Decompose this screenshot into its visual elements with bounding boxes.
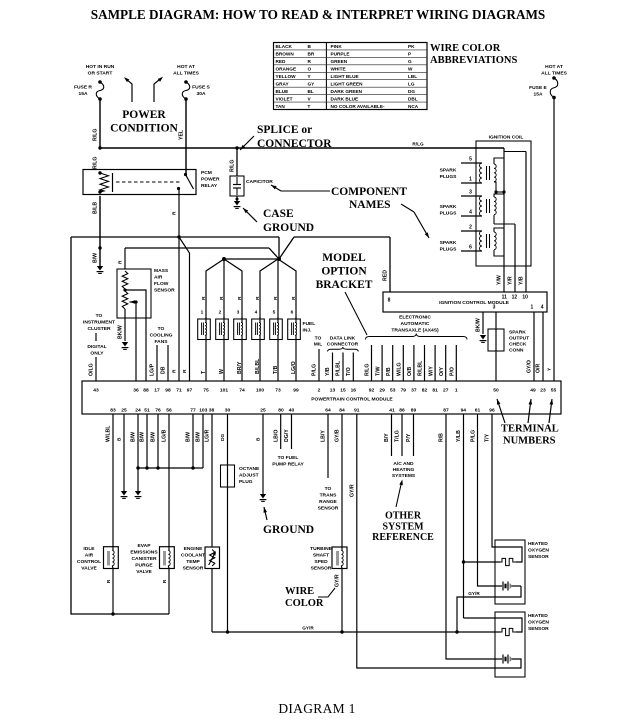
svg-text:1: 1: [455, 388, 458, 394]
svg-text:15A: 15A: [534, 92, 543, 98]
transformer coil 2: [461, 195, 482, 197]
svg-text:DIGITAL: DIGITAL: [87, 344, 106, 350]
wire injector group bus (y=259): [224, 258, 279, 260]
wire P/Y pin 89: [413, 414, 415, 456]
wire LG/P to pin 17: [156, 345, 158, 381]
svg-text:TERMINAL: TERMINAL: [501, 424, 559, 435]
svg-text:SYSTEM: SYSTEM: [382, 521, 424, 532]
svg-text:2: 2: [318, 388, 321, 394]
svg-text:MIL: MIL: [314, 342, 322, 348]
wire DG/Y pin 40 fuel pump relay: [291, 414, 293, 449]
svg-text:IDLE: IDLE: [83, 546, 95, 552]
svg-text:Y/B: Y/B: [325, 367, 331, 376]
wire GY/B pin 84 to turbine sensor: [341, 414, 343, 547]
svg-text:SPARK: SPARK: [509, 330, 526, 336]
svg-text:101: 101: [220, 388, 228, 394]
svg-text:GY/R: GY/R: [302, 626, 314, 631]
wire Y/LB into lower oxygen sensor: [464, 617, 496, 619]
svg-text:81: 81: [432, 388, 438, 394]
svg-text:O/LG: O/LG: [89, 363, 95, 376]
svg-text:98: 98: [165, 388, 171, 394]
svg-text:TO: TO: [158, 326, 165, 332]
svg-text:B/W: B/W: [196, 432, 202, 442]
svg-text:30A: 30A: [197, 91, 206, 97]
wire MAF wiper to pin 36: [135, 302, 137, 381]
wire injector 2 feed: [223, 259, 225, 319]
svg-text:B/W: B/W: [186, 432, 192, 442]
svg-text:61: 61: [475, 408, 481, 414]
svg-text:YEL: YEL: [179, 129, 185, 140]
svg-text:51: 51: [144, 408, 150, 414]
svg-text:O/Y: O/Y: [439, 367, 445, 376]
wire below idle air valve: [112, 568, 114, 614]
svg-text:56: 56: [166, 408, 172, 414]
wire B/W pin 24 to ground: [137, 414, 139, 491]
valve EVAP EMISSIONS CANISTER PURGE box: [160, 547, 175, 569]
svg-text:G: G: [408, 59, 412, 64]
svg-text:R: R: [273, 296, 279, 300]
svg-text:MODEL: MODEL: [322, 252, 366, 264]
wire B/W pin 103: [202, 414, 204, 468]
wire GY/R return bus: [212, 631, 500, 633]
relay switch: [184, 173, 187, 176]
svg-text:41: 41: [389, 408, 395, 414]
svg-text:POWER: POWER: [201, 177, 220, 183]
svg-text:GY: GY: [308, 81, 316, 86]
svg-text:GY/R: GY/R: [349, 484, 355, 497]
wire YEL from fuse S to relay switch: [185, 99, 187, 174]
svg-text:80: 80: [278, 408, 284, 414]
brace data link: [328, 347, 359, 352]
wire B pin 25b to ground: [262, 414, 264, 494]
svg-text:FUSE S: FUSE S: [192, 85, 210, 91]
svg-text:77: 77: [190, 408, 196, 414]
svg-text:PLUG: PLUG: [239, 479, 253, 485]
svg-text:GREEN: GREEN: [331, 59, 348, 64]
svg-text:86: 86: [399, 408, 405, 414]
svg-text:Y/R: Y/R: [508, 276, 514, 285]
svg-text:R/B: R/B: [439, 433, 445, 442]
svg-text:W/LBL: W/LBL: [106, 425, 112, 442]
svg-text:5: 5: [273, 310, 276, 316]
transformer coil 3: [461, 230, 482, 232]
svg-text:3: 3: [469, 190, 472, 196]
svg-text:16: 16: [351, 388, 357, 394]
wire B pin 25 to ground: [123, 414, 125, 491]
wire below EVAP valve: [168, 568, 170, 614]
svg-text:COOLING: COOLING: [150, 333, 173, 339]
svg-text:CONDITION: CONDITION: [110, 123, 178, 135]
wire R bus corner down to junction: [278, 237, 280, 259]
svg-text:97: 97: [187, 388, 193, 394]
svg-text:PURGE: PURGE: [135, 563, 153, 569]
case ground symbol: [236, 196, 238, 201]
wire left feed bus down: [71, 237, 169, 614]
stub line: [95, 333, 97, 341]
svg-text:74: 74: [239, 388, 245, 394]
svg-text:DIAGRAM 1: DIAGRAM 1: [278, 701, 355, 716]
svg-text:BRACKET: BRACKET: [316, 279, 373, 291]
svg-text:4: 4: [541, 305, 544, 311]
svg-text:PLUGS: PLUGS: [440, 211, 458, 217]
svg-text:T/LG: T/LG: [395, 430, 401, 442]
svg-text:W: W: [408, 67, 413, 72]
svg-text:CANISTER: CANISTER: [132, 556, 157, 562]
node MAF divider: [123, 288, 126, 291]
svg-text:HEATING: HEATING: [393, 467, 415, 473]
svg-text:COLOR: COLOR: [285, 598, 324, 609]
svg-text:ELECTRONIC: ELECTRONIC: [399, 315, 431, 321]
svg-text:TAN: TAN: [276, 104, 286, 109]
wire B/W pin 51: [146, 414, 148, 468]
svg-text:HEATED: HEATED: [528, 613, 548, 619]
svg-text:AIR: AIR: [85, 553, 94, 559]
svg-text:ALL TIMES: ALL TIMES: [541, 71, 567, 77]
svg-text:88: 88: [143, 388, 149, 394]
svg-text:25: 25: [260, 408, 266, 414]
svg-text:FANS: FANS: [154, 339, 168, 345]
svg-text:B/W: B/W: [93, 253, 99, 263]
wire BK/W ICM ground: [482, 312, 484, 334]
svg-text:O/R: O/R: [536, 364, 542, 373]
wire T/LG pin 86: [401, 414, 403, 456]
svg-text:AUTOMATIC: AUTOMATIC: [401, 321, 430, 327]
svg-text:POWER: POWER: [122, 109, 166, 121]
primary links coil 3: [494, 228, 504, 232]
svg-text:NUMBERS: NUMBERS: [503, 436, 556, 447]
svg-text:OCTANE: OCTANE: [239, 466, 260, 472]
wire W/LG AX4S: [402, 345, 404, 381]
svg-text:RED: RED: [383, 270, 389, 281]
svg-text:VALVE: VALVE: [81, 566, 97, 572]
svg-text:99: 99: [293, 388, 299, 394]
svg-text:100: 100: [256, 388, 264, 394]
wire R/LG power bus: [100, 147, 504, 149]
node turbine to GY/R bus: [340, 630, 343, 633]
wire O/LG to pin 43: [95, 357, 97, 381]
relay coil: [98, 171, 101, 174]
wires data link pins 13 15 16: [332, 353, 334, 382]
svg-text:LG/R: LG/R: [205, 429, 211, 442]
svg-text:SENSOR: SENSOR: [154, 288, 175, 294]
leader to SPARK PLUGS label: [401, 204, 414, 212]
node upper O2 return to GY/R bus: [455, 630, 458, 633]
module IGNITION CONTROL MODULE box: [383, 292, 547, 312]
svg-text:PUMP RELAY: PUMP RELAY: [272, 462, 304, 468]
svg-text:BK/W: BK/W: [118, 325, 124, 339]
svg-text:29: 29: [379, 388, 385, 394]
svg-text:38: 38: [209, 408, 215, 414]
svg-text:DARK BLUE: DARK BLUE: [331, 96, 359, 101]
primary links coil 2: [494, 194, 504, 197]
arrows to terminal numbers: [497, 399, 505, 423]
svg-text:ABBREVIATIONS: ABBREVIATIONS: [430, 55, 517, 66]
wire LG/R pin 38 to coolant temp sensor: [211, 414, 213, 547]
svg-text:CASE: CASE: [263, 208, 294, 220]
wires coil outputs Y/W Y/R Y/B: [503, 266, 505, 292]
svg-text:R/LG: R/LG: [412, 142, 424, 147]
svg-text:T/B: T/B: [273, 365, 279, 374]
svg-text:LBL: LBL: [408, 74, 417, 79]
svg-text:WHITE: WHITE: [331, 67, 346, 72]
svg-text:OXYGEN: OXYGEN: [528, 548, 549, 554]
svg-text:2: 2: [219, 310, 222, 316]
svg-text:INJ.: INJ.: [303, 328, 313, 334]
svg-text:TO: TO: [325, 486, 332, 492]
svg-text:SENSOR: SENSOR: [311, 566, 332, 572]
svg-text:LG/B: LG/B: [162, 429, 168, 442]
svg-text:GY/R: GY/R: [335, 574, 341, 587]
svg-text:R/LG: R/LG: [230, 160, 236, 172]
svg-text:EVAP: EVAP: [138, 543, 152, 549]
svg-text:89: 89: [411, 408, 417, 414]
MAF resistor 1: [122, 271, 128, 289]
svg-text:BR/Y: BR/Y: [237, 361, 243, 374]
svg-text:LG/O: LG/O: [291, 361, 297, 374]
svg-text:B/W: B/W: [140, 432, 146, 442]
svg-text:COMPONENT: COMPONENT: [331, 186, 407, 198]
brace AX4S: [366, 334, 468, 340]
upper O2 heater element: [500, 558, 516, 565]
node on B/W wire: [98, 246, 101, 249]
arrow to HOT IN RUN label: [126, 79, 133, 103]
svg-text:8: 8: [388, 298, 391, 304]
svg-text:OUTPUT: OUTPUT: [509, 336, 529, 342]
svg-text:RELAY: RELAY: [201, 183, 218, 189]
svg-text:SENSOR: SENSOR: [318, 506, 339, 512]
svg-text:POWERTRAIN CONTROL MODULE: POWERTRAIN CONTROL MODULE: [311, 397, 393, 403]
svg-text:87: 87: [443, 408, 449, 414]
leader A/C to OTHER SYSTEM REFERENCE: [396, 483, 402, 508]
svg-text:P/O: P/O: [450, 367, 456, 376]
svg-text:B/W: B/W: [131, 432, 137, 442]
svg-text:DG: DG: [408, 89, 415, 94]
wire LB/O pin 80 fuel pump relay: [280, 414, 282, 449]
node idle-air to bus: [111, 612, 114, 615]
primary links coil 1: [494, 158, 504, 164]
relay PCM POWER RELAY box: [83, 170, 196, 195]
svg-text:BLACK: BLACK: [276, 44, 293, 49]
svg-text:GY/R: GY/R: [468, 591, 480, 596]
svg-text:ADJUST: ADJUST: [239, 473, 259, 479]
svg-text:R: R: [237, 296, 243, 300]
wire B/Y pin 41: [391, 414, 393, 456]
leader from MODEL OPTION BRACKET to brace: [345, 292, 367, 335]
svg-text:IGNITION CONTROL MODULE: IGNITION CONTROL MODULE: [439, 300, 509, 306]
svg-text:SENSOR: SENSOR: [528, 626, 549, 632]
wire R bus upper (y=237): [71, 236, 279, 238]
wire B/W pin 77: [192, 414, 194, 468]
wire R/LG into coil: [503, 148, 505, 266]
wire MAF to pin 88: [125, 290, 146, 381]
svg-text:VALVE: VALVE: [136, 569, 152, 575]
wire P/B AX4S: [392, 345, 394, 381]
node left injector junction: [222, 257, 226, 261]
svg-text:R: R: [201, 296, 207, 300]
svg-text:T: T: [308, 104, 311, 109]
svg-text:B/W: B/W: [151, 432, 157, 442]
svg-text:2: 2: [469, 225, 472, 231]
svg-text:NO COLOR AVAILABLE-: NO COLOR AVAILABLE-: [331, 104, 386, 109]
wire GY/R pin 91 to lower oxygen sensor: [357, 414, 489, 668]
sensor MASS AIR FLOW box: [117, 269, 151, 318]
svg-text:WIRE: WIRE: [285, 586, 314, 597]
wire R relay to pin 71: [178, 189, 180, 381]
leader to CAPICITOR label: [281, 190, 330, 192]
wire O/Y AX4S: [445, 345, 447, 381]
svg-text:SPED: SPED: [314, 559, 328, 565]
svg-text:P/B: P/B: [386, 367, 392, 376]
svg-text:64: 64: [325, 408, 331, 414]
svg-text:11: 11: [502, 295, 508, 301]
svg-text:PLUGS: PLUGS: [440, 247, 458, 253]
svg-text:43: 43: [93, 388, 99, 394]
svg-text:AIR: AIR: [154, 275, 163, 281]
svg-text:NCA: NCA: [408, 104, 419, 109]
coil inner rail: [504, 151, 526, 153]
svg-text:R: R: [172, 369, 178, 373]
svg-text:15: 15: [340, 388, 346, 394]
svg-text:GY/B: GY/B: [335, 429, 341, 442]
wire LG/B pin 56 to EVAP valve: [168, 414, 170, 547]
wire diagonal junction to RED run: [279, 237, 294, 259]
svg-text:PK: PK: [408, 44, 415, 49]
svg-text:LB/O: LB/O: [274, 430, 280, 442]
svg-text:DG: DG: [220, 434, 226, 441]
svg-text:NAMES: NAMES: [349, 199, 391, 211]
svg-text:73: 73: [275, 388, 281, 394]
svg-text:P/LBL: P/LBL: [336, 360, 342, 376]
wire DB to pin 98: [167, 345, 169, 381]
wire R/LBL AX4S: [424, 345, 426, 381]
relay linkage dashed: [116, 181, 180, 183]
svg-text:Y/W: Y/W: [497, 275, 503, 285]
wire R injector bus (y=248): [125, 247, 269, 249]
svg-text:ONLY: ONLY: [90, 351, 104, 357]
svg-text:CONTROL: CONTROL: [77, 559, 101, 565]
svg-text:R: R: [219, 296, 225, 300]
svg-text:GROUND: GROUND: [263, 524, 314, 536]
svg-text:50: 50: [493, 388, 499, 394]
svg-text:CONN: CONN: [509, 348, 524, 354]
svg-text:DARK GREEN: DARK GREEN: [331, 89, 363, 94]
svg-text:SPLICE or: SPLICE or: [257, 124, 312, 136]
svg-text:R/LBL: R/LBL: [418, 360, 424, 376]
leader WIRE COLOR to GY/R: [318, 588, 335, 597]
svg-text:SENSOR: SENSOR: [528, 554, 549, 560]
svg-text:49: 49: [530, 388, 536, 394]
svg-text:12: 12: [512, 295, 518, 301]
wire GY/O ICM 1 to pin 49: [533, 312, 535, 381]
node DG to GY/R bus: [226, 630, 229, 633]
svg-text:IGNITION COIL: IGNITION COIL: [489, 135, 524, 141]
wire O/B AX4S: [413, 345, 415, 381]
svg-text:YELLOW: YELLOW: [276, 74, 297, 79]
svg-text:B: B: [256, 437, 262, 441]
svg-text:CONNECTOR: CONNECTOR: [257, 138, 332, 150]
svg-text:SAMPLE DIAGRAM: HOW TO READ &: SAMPLE DIAGRAM: HOW TO READ & INTERPRET …: [91, 7, 546, 22]
lower O2 heater element: [500, 628, 516, 635]
svg-text:DB: DB: [161, 366, 167, 374]
svg-text:BK/W: BK/W: [476, 318, 482, 332]
svg-text:6: 6: [469, 245, 472, 251]
svg-text:82: 82: [422, 388, 428, 394]
connector SPARK OUTPUT CHECK CONN: [488, 329, 504, 351]
sensor HEATED OXYGEN upper box: [495, 540, 525, 604]
svg-text:OXYGEN: OXYGEN: [528, 620, 549, 626]
arrow to splice: [240, 136, 254, 150]
valve IDLE AIR CONTROL box: [104, 547, 119, 569]
wire color abbreviation table: [274, 43, 428, 110]
svg-text:LIGHT GREEN: LIGHT GREEN: [331, 81, 364, 86]
arrow to case ground: [243, 208, 257, 222]
svg-text:10: 10: [522, 295, 528, 301]
wire W/Y AX4S: [434, 345, 436, 381]
svg-text:37: 37: [411, 388, 417, 394]
svg-text:ORANGE: ORANGE: [276, 67, 297, 72]
sensor HEATED OXYGEN lower box: [495, 612, 525, 677]
wire injector 5 feed: [277, 259, 279, 319]
svg-text:4: 4: [469, 210, 472, 216]
svg-text:96: 96: [489, 408, 495, 414]
wire Y from fuse E to pin 55: [553, 97, 555, 381]
module POWERTRAIN CONTROL MODULE box: [82, 381, 561, 414]
wire W/LBL pin 83 to idle air control valve: [112, 414, 114, 547]
svg-text:GRAY: GRAY: [276, 81, 290, 86]
svg-text:HOT AT: HOT AT: [177, 64, 195, 70]
svg-text:R/LG: R/LG: [93, 157, 99, 169]
wire R to MAF sensor: [124, 248, 126, 269]
svg-text:OPTION: OPTION: [321, 266, 367, 278]
svg-text:HEATED: HEATED: [528, 541, 548, 547]
svg-text:B/LB: B/LB: [93, 202, 99, 214]
svg-text:CONNECTOR: CONNECTOR: [327, 342, 359, 348]
svg-text:A/C AND: A/C AND: [393, 461, 414, 467]
svg-text:CHECK: CHECK: [509, 342, 527, 348]
wire Y/LB branch to upper heater: [464, 561, 501, 563]
svg-text:DATA LINK: DATA LINK: [330, 336, 356, 342]
svg-text:83: 83: [110, 408, 116, 414]
svg-text:94: 94: [461, 408, 467, 414]
svg-text:T/O: T/O: [346, 367, 352, 376]
svg-text:SHAFT: SHAFT: [313, 553, 329, 559]
svg-text:ENGINE: ENGINE: [184, 546, 203, 552]
wire R/LG AX4S: [371, 345, 373, 381]
svg-text:TURBINE: TURBINE: [310, 546, 332, 552]
svg-text:40: 40: [289, 408, 295, 414]
svg-text:TEMP: TEMP: [186, 559, 200, 565]
wire P/O AX4S: [455, 345, 457, 381]
svg-text:24: 24: [135, 408, 141, 414]
svg-text:CAPICITOR: CAPICITOR: [246, 179, 273, 185]
ignition coil box: [476, 141, 531, 266]
svg-text:75: 75: [203, 388, 209, 394]
svg-text:WIRE COLOR: WIRE COLOR: [430, 43, 501, 54]
svg-text:PURPLE: PURPLE: [331, 52, 350, 57]
fuel injector boxes with coils: [198, 319, 211, 340]
svg-text:55: 55: [551, 388, 557, 394]
svg-text:R/LG: R/LG: [93, 129, 99, 141]
svg-text:R: R: [118, 260, 124, 264]
svg-text:FUSE R: FUSE R: [74, 85, 92, 91]
svg-text:O: O: [308, 67, 312, 72]
svg-text:R: R: [182, 369, 188, 373]
wire DG pin 30 through octane plug: [227, 414, 229, 632]
node relay R wire junction: [177, 235, 180, 238]
upper O2 cell: [502, 582, 504, 591]
svg-text:92: 92: [369, 388, 375, 394]
svg-text:SENSOR: SENSOR: [183, 566, 204, 572]
